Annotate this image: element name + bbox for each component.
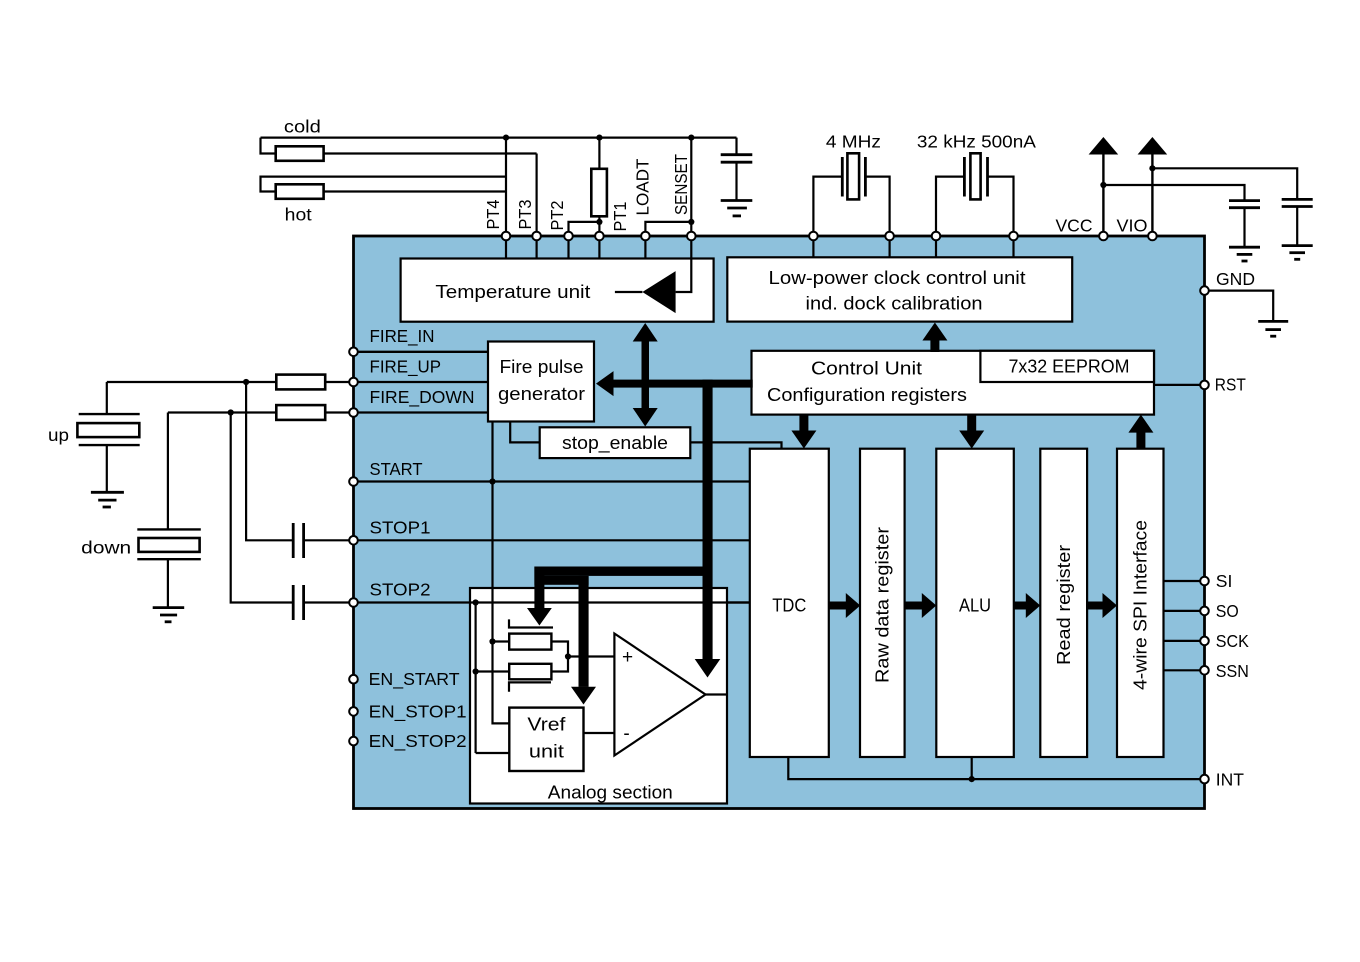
box Temperature unit <box>401 259 714 322</box>
wire comparator output <box>706 693 728 695</box>
wire STOP2 to res2 and Vref <box>475 603 477 754</box>
resistor hot PT sensor <box>261 177 507 199</box>
pin X2b <box>1009 232 1018 241</box>
pin SO <box>1200 607 1209 616</box>
svg-text:ind. dock calibration: ind. dock calibration <box>806 294 983 314</box>
svg-text:Control Unit: Control Unit <box>811 359 922 379</box>
capacitor C4 STOP2 <box>293 585 303 620</box>
resistor R2 FIRE_DOWN <box>276 405 325 420</box>
pin STOP1 <box>349 536 358 545</box>
svg-text:+: + <box>622 647 633 668</box>
svg-text:SO: SO <box>1216 601 1239 621</box>
svg-text:Low-power clock control unit: Low-power clock control unit <box>769 268 1026 288</box>
wire VIO decoupling <box>1152 168 1297 199</box>
wire LOADT jog <box>645 222 691 236</box>
capacitor C3 STOP1 <box>293 523 303 558</box>
box Analog section <box>470 588 727 804</box>
wire STOP2 <box>354 601 750 603</box>
ground C2 <box>1282 246 1313 260</box>
junction dot comp plus node <box>565 653 571 659</box>
svg-text:32 kHz 500nA: 32 kHz 500nA <box>917 132 1036 152</box>
bus arrow TDC to Raw <box>829 593 861 618</box>
junction dot FPG-START <box>489 478 495 484</box>
svg-text:SSN: SSN <box>1216 661 1249 681</box>
pin VCC <box>1099 232 1108 241</box>
bracket above Ra <box>509 619 553 627</box>
svg-text:SENSET: SENSET <box>671 154 691 215</box>
junction dot LOADT-SENSET <box>688 219 694 225</box>
wire SO <box>1164 610 1205 612</box>
wire VCC decoupling <box>1103 185 1244 201</box>
amplifier (temperature unit) <box>642 271 675 313</box>
pin PT1 <box>595 232 604 241</box>
svg-text:PT3: PT3 <box>515 200 535 230</box>
box TDC <box>750 449 829 757</box>
bus branch analog vref <box>534 576 596 705</box>
svg-text:Raw data register: Raw data register <box>873 527 893 683</box>
svg-text:ALU: ALU <box>959 596 991 616</box>
pin X1a <box>809 232 818 241</box>
svg-text:-: - <box>623 724 629 745</box>
bus arrow SPI to CU <box>1128 415 1153 449</box>
svg-text:PT2: PT2 <box>547 201 567 231</box>
svg-text:generator: generator <box>498 384 585 404</box>
box Fire pulse generator <box>488 342 594 422</box>
svg-text:SCK: SCK <box>1216 631 1249 651</box>
bus arrow Read to SPI <box>1087 593 1117 618</box>
wire PT2 stub <box>567 236 569 259</box>
pin START <box>349 477 358 486</box>
wire FPG line to Vref <box>493 587 510 724</box>
svg-text:4-wire SPI Interface: 4-wire SPI Interface <box>1131 520 1151 690</box>
svg-text:Vref: Vref <box>527 715 566 735</box>
svg-text:FIRE_UP: FIRE_UP <box>370 357 442 378</box>
svg-text:PT4: PT4 <box>483 199 503 229</box>
bus arrow CU to TDC <box>791 415 816 449</box>
wire res2 left lead <box>476 670 510 672</box>
bus trunk to analog <box>695 380 721 678</box>
wire common sense rail <box>261 137 737 139</box>
wire X2b stub <box>1012 236 1014 257</box>
pin SCK <box>1200 637 1209 646</box>
svg-text:FIRE_DOWN: FIRE_DOWN <box>370 387 475 408</box>
capacitor C2 <box>1282 199 1313 245</box>
svg-text:Temperature unit: Temperature unit <box>435 282 590 302</box>
crystal X1 4MHz <box>813 153 889 236</box>
bus arrow ALU to Read <box>1014 593 1041 618</box>
ground C1 <box>1229 247 1260 261</box>
wire C4 to pin <box>304 601 354 603</box>
wire FIRE_DOWN net <box>168 411 276 413</box>
svg-text:Analog section: Analog section <box>548 783 673 803</box>
pin FIRE_IN <box>349 348 358 357</box>
pin PT2 <box>564 232 573 241</box>
wire STOP2 through analog <box>470 601 750 603</box>
pin GND <box>1200 286 1209 295</box>
wire ALU to INT <box>971 757 973 779</box>
resistor R1 FIRE_UP <box>276 375 325 390</box>
box Control Unit / Configuration registers <box>752 351 1155 415</box>
wire PT3 stub <box>535 236 537 259</box>
junction dot res2 tap <box>473 668 479 674</box>
svg-text:STOP2: STOP2 <box>370 580 431 600</box>
svg-text:7x32 EEPROM: 7x32 EEPROM <box>1009 357 1130 377</box>
svg-text:unit: unit <box>529 742 564 762</box>
bracket below Rb <box>509 682 551 691</box>
junction dot VIO branch <box>1149 165 1155 171</box>
pin EN_STOP2 <box>349 737 358 746</box>
svg-text:START: START <box>370 459 423 479</box>
svg-text:4 MHz: 4 MHz <box>826 132 881 152</box>
VIO supply wire <box>1151 152 1153 236</box>
svg-text:Configuration registers: Configuration registers <box>767 385 967 405</box>
junction dot FIRE_DOWN branch <box>228 409 234 415</box>
svg-text:EN_STOP1: EN_STOP1 <box>369 701 467 722</box>
capacitor Cload <box>721 138 753 201</box>
capacitor C1 <box>1229 201 1260 248</box>
box Vref unit <box>509 708 583 771</box>
wire R1 to pin <box>325 381 353 383</box>
svg-text:hot: hot <box>285 205 312 225</box>
resistor Rref <box>591 138 607 236</box>
wire SSN <box>1164 669 1205 671</box>
pin VIO <box>1148 232 1157 241</box>
resistor Rb (analog) <box>509 664 551 680</box>
pin FIRE_UP <box>349 378 358 387</box>
wire STOP1 branch <box>246 382 293 540</box>
wire FIRE_IN internal <box>354 351 489 353</box>
svg-text:PT1: PT1 <box>610 202 630 232</box>
junction dot STOP2 branch analog <box>473 599 479 605</box>
junction dot VCC branch <box>1100 182 1106 188</box>
wire LOADT stub <box>644 236 646 259</box>
junction dot rail-Rref <box>596 135 602 141</box>
pin RST <box>1200 381 1209 390</box>
pin X1b <box>885 232 894 241</box>
wire FPG to START <box>491 422 493 724</box>
bus arrow temp-stopen vertical <box>633 323 658 427</box>
pin SSN <box>1200 666 1209 675</box>
wire START <box>354 480 750 482</box>
ground GND pin <box>1258 321 1288 336</box>
wire FIRE_UP internal <box>354 381 489 383</box>
pin SI <box>1200 577 1209 586</box>
ground Cload <box>721 201 753 216</box>
svg-text:VIO: VIO <box>1117 216 1148 236</box>
power arrow VIO <box>1138 137 1168 155</box>
wire FPG to stop_enable <box>510 422 540 443</box>
svg-text:EN_STOP2: EN_STOP2 <box>369 731 467 752</box>
bus arrow CU to FPG horizontal <box>596 371 753 396</box>
wire PT4 <box>505 138 507 236</box>
junction dot rail-SENSET <box>688 135 694 141</box>
wire STOP2 branch <box>231 413 294 603</box>
svg-text:FIRE_IN: FIRE_IN <box>370 326 435 347</box>
wire SCK <box>1164 640 1205 642</box>
pin PT3 <box>532 232 541 241</box>
ground down <box>153 608 185 622</box>
wire PT3 <box>535 154 537 237</box>
ground up <box>91 492 124 507</box>
svg-text:RST: RST <box>1215 375 1246 395</box>
svg-text:STOP1: STOP1 <box>370 518 431 538</box>
svg-text:LOADT: LOADT <box>633 158 653 215</box>
resistor cold PT sensor <box>261 138 537 161</box>
wire PT4 stub <box>505 236 507 259</box>
wire C3 to pin <box>304 539 354 541</box>
svg-text:down: down <box>81 538 131 558</box>
box 7x32 EEPROM <box>980 351 1154 382</box>
wire to comparator plus <box>568 655 614 657</box>
box Raw data register <box>860 449 905 757</box>
wire stop_enable to TDC <box>690 442 781 448</box>
pin EN_START <box>349 675 358 684</box>
box Low-power clock control unit <box>727 257 1072 321</box>
pin SENSET <box>687 232 696 241</box>
pin EN_STOP1 <box>349 707 358 716</box>
pin LOADT <box>641 232 650 241</box>
wire PT2 jog <box>569 222 600 236</box>
svg-text:Fire pulse: Fire pulse <box>500 357 584 377</box>
box Read register <box>1040 449 1087 757</box>
comparator (analog section) <box>614 634 705 756</box>
junction dot rail-PT4 <box>503 135 509 141</box>
junction dot res1 tap <box>489 638 495 644</box>
svg-text:INT: INT <box>1216 770 1245 790</box>
transducer up <box>77 382 139 492</box>
wire SI <box>1164 580 1205 582</box>
wire Vref to comparator minus <box>584 732 615 734</box>
transducer down <box>137 413 201 608</box>
box ALU <box>936 449 1014 757</box>
svg-text:GND: GND <box>1216 269 1255 289</box>
svg-text:TDC: TDC <box>772 596 806 616</box>
pin X2a <box>932 232 941 241</box>
svg-text:stop_enable: stop_enable <box>562 433 668 454</box>
junction dot ALU-INT <box>969 776 975 782</box>
pin FIRE_DOWN <box>349 408 358 417</box>
VCC supply wire <box>1102 152 1104 236</box>
bus branch analog left <box>527 567 713 626</box>
svg-text:SI: SI <box>1216 571 1233 591</box>
box 4-wire SPI Interface <box>1117 449 1164 757</box>
wire X2a stub <box>935 236 937 257</box>
pin INT <box>1200 775 1209 784</box>
wire PT1 stub <box>598 236 600 259</box>
junction dot FIRE_UP branch <box>243 379 249 385</box>
power arrow VCC <box>1089 137 1119 155</box>
wire STOP1 <box>354 539 750 541</box>
wire X1b stub <box>888 236 890 257</box>
svg-text:Read register: Read register <box>1054 545 1074 665</box>
resistor Ra (analog) <box>509 634 551 650</box>
wire RST <box>1154 384 1205 386</box>
pin STOP2 <box>349 598 358 607</box>
pin PT4 <box>502 232 511 241</box>
svg-text:VCC: VCC <box>1056 216 1093 236</box>
wire GND <box>1205 291 1274 322</box>
chip body (TDC IC outline) <box>354 236 1205 809</box>
wire SENSET to amp <box>676 236 692 292</box>
bus arrow CU to clock <box>922 323 947 353</box>
crystal X2 32kHz <box>936 153 1014 236</box>
wire res1 left lead <box>493 640 510 642</box>
wire INT <box>788 757 1204 779</box>
svg-text:EN_START: EN_START <box>369 669 460 690</box>
wire resistor right node <box>551 642 568 657</box>
wire X1a stub <box>812 236 814 257</box>
junction dot Rref-PT1 <box>596 219 602 225</box>
svg-text:cold: cold <box>284 117 321 137</box>
svg-text:up: up <box>48 425 69 445</box>
wire FIRE_UP net <box>107 381 276 383</box>
wire R2 to pin <box>325 411 353 413</box>
box stop_enable <box>540 427 691 458</box>
wire SENSET <box>690 138 692 236</box>
bus arrow CU to ALU <box>959 415 984 449</box>
wire FIRE_DOWN internal <box>354 411 489 413</box>
bus arrow Raw to ALU <box>905 593 937 618</box>
